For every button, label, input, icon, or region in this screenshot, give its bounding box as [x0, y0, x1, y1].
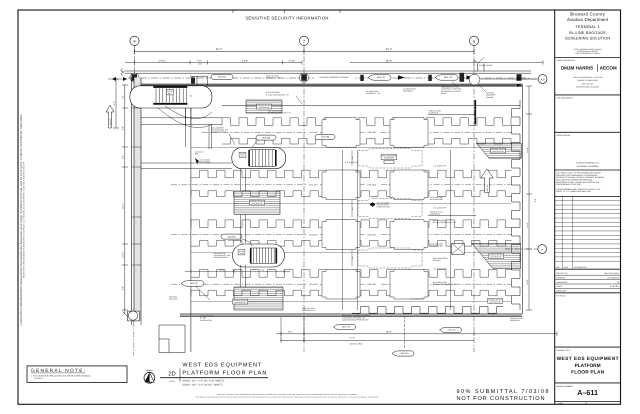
H2	[234, 191, 280, 215]
45/A-317 pennant	[181, 281, 204, 286]
EDS band 1 bottom	[222, 138, 512, 144]
svg-text:EDS UNIT: EDS UNIT	[368, 233, 378, 236]
EDS conveyor band 4 top	[191, 270, 512, 278]
north arrow	[144, 372, 155, 383]
EDS machine outline B band 2	[390, 170, 428, 200]
EDS band 2 centerline	[171, 184, 512, 186]
EDS band 1 centerline	[202, 131, 512, 133]
platform bottom edge	[180, 313, 522, 315]
svg-text:CHECKED BY:: CHECKED BY:	[556, 281, 568, 284]
svg-text:2'-6": 2'-6"	[122, 95, 125, 99]
svg-text:AECOM: AECOM	[600, 66, 617, 71]
grid bubble A	[538, 245, 547, 254]
grid bubble 6	[469, 36, 478, 45]
svg-text:PRIME CONSULTANT:: PRIME CONSULTANT:	[557, 59, 576, 62]
EDS band 2 bottom	[191, 191, 512, 197]
svg-text:DRAWING TITLE:: DRAWING TITLE:	[556, 349, 571, 352]
revision table	[555, 195, 621, 197]
svg-text:AR-0015651 / ID-0003094: AR-0015651 / ID-0003094	[577, 165, 599, 168]
grid bubble 8	[130, 36, 139, 45]
svg-text:11'-10": 11'-10"	[158, 59, 165, 62]
svg-text:EXISTING CONCRETE COLUMN: EXISTING CONCRETE COLUMN	[320, 76, 349, 79]
wall break mark	[121, 69, 124, 76]
svg-text:A: A	[541, 248, 543, 251]
svg-text:13'-8": 13'-8"	[242, 59, 248, 62]
svg-text:PROFESSIONAL OF RECORD.: PROFESSIONAL OF RECORD.	[556, 183, 582, 186]
bottom dimension line 1	[276, 333, 557, 335]
svg-text:SUNRISE, FLORIDA 33323: SUNRISE, FLORIDA 33323	[577, 79, 598, 82]
stair 3 label	[238, 250, 245, 255]
column at grid 6	[460, 73, 465, 82]
svg-text:B06C0151.A3/A05: B06C0151.A3/A05	[605, 272, 620, 275]
svg-text:VOLUME 1: VOLUME 1	[34, 377, 43, 380]
svg-text:4'-4": 4'-4"	[288, 331, 293, 334]
svg-text:SCALE: 1/8" = 1'-0" (11"X17: SCALE: 1/8" = 1'-0" (11"X17" SHEET)	[182, 383, 222, 386]
svg-text:BY BHS CONTRACTOR, TYP.: BY BHS CONTRACTOR, TYP.	[433, 283, 457, 286]
H1	[246, 100, 282, 113]
svg-text:9'-8": 9'-8"	[122, 126, 125, 130]
svg-text:12'-4": 12'-4"	[219, 268, 224, 271]
pennant 15/A-722	[334, 324, 356, 329]
leader arcs below stair 1	[165, 106, 212, 119]
EDS conveyor band 2 top	[191, 170, 512, 178]
EDS platform outline left edge	[190, 108, 192, 352]
svg-text:2'-0" CLEAR TYP.: 2'-0" CLEAR TYP.	[410, 298, 424, 301]
EDS conveyor band 3 top	[191, 220, 512, 228]
svg-text:4'-10": 4'-10"	[289, 59, 295, 62]
svg-text:36'-0": 36'-0"	[386, 331, 392, 334]
catwalk label bottom right	[488, 298, 503, 303]
svg-text:PROJECT NO:: PROJECT NO:	[556, 272, 568, 275]
conveyor lines from wall to band1	[141, 118, 222, 125]
svg-text:DESCRIPTION: DESCRIPTION	[574, 266, 587, 269]
svg-text:PLATFORM FLOOR PLAN: PLATFORM FLOOR PLAN	[182, 370, 266, 376]
EDS unit label band 1	[365, 130, 380, 134]
outer left dimension	[115, 79, 117, 128]
svg-text:ARCHITECTURE 54643500 T1 BAGGA: ARCHITECTURE 54643500 T1 BAGGAGE A-611 P…	[23, 161, 26, 278]
svg-text:NORTH: NORTH	[146, 369, 153, 372]
existing wall (top)	[125, 70, 532, 72]
callout 45/A-722 pennant 1	[368, 75, 391, 80]
svg-text:14'-0": 14'-0"	[526, 222, 529, 227]
svg-text:ACCESS DOOR, OPPOSITE SIDE: ACCESS DOOR, OPPOSITE SIDE	[342, 319, 369, 322]
EDS machine outline A band 1	[322, 118, 360, 148]
removable guardrail leader	[452, 82, 455, 86]
svg-text:CMU WALL: CMU WALL	[169, 298, 178, 301]
svg-text:REGISTRATION:: REGISTRATION:	[557, 134, 571, 137]
svg-text:ISSUE DATE:: ISSUE DATE:	[556, 290, 567, 293]
EDS band 4 centerline	[171, 283, 512, 285]
EDS band 3 centerline	[171, 234, 512, 236]
svg-text:( LINE TO GRID ): ( LINE TO GRID )	[349, 343, 364, 346]
svg-text:Aviation Department: Aviation Department	[567, 17, 609, 22]
svg-text:GUARDRAIL: GUARDRAIL	[510, 319, 520, 322]
EDS machine outline A band 4	[322, 269, 360, 299]
svg-text:2'-0" CLEAR TYP.: 2'-0" CLEAR TYP.	[345, 161, 359, 164]
callout 16/A-601	[211, 75, 233, 80]
svg-text:GUARDRAIL,TYP.: GUARDRAIL,TYP.	[302, 309, 316, 312]
wall thickness dim	[108, 78, 127, 80]
bottom-left step outline	[159, 325, 185, 353]
EDS equipment platform label	[381, 154, 397, 159]
svg-text:COLUMN: COLUMN	[486, 96, 494, 99]
existing concrete column note	[314, 75, 354, 80]
svg-text:SCALE: 1/4" = 1'-0" (22" X: SCALE: 1/4" = 1'-0" (22" X 34" SHEET)	[182, 379, 224, 382]
svg-text:A–611: A–611	[577, 388, 598, 397]
svg-text:SCALE:: SCALE:	[556, 285, 563, 288]
svg-text:12/A-668: 12/A-668	[321, 136, 330, 139]
H5	[472, 243, 521, 268]
svg-text:No.1: No.1	[168, 92, 172, 95]
svg-text:A.8: A.8	[541, 78, 545, 81]
svg-text:DMJM HARRIS: DMJM HARRIS	[561, 66, 593, 71]
small dims between bands	[352, 150, 354, 266]
EDS unit label band 2	[365, 183, 380, 187]
svg-text:GUARDRAIL: GUARDRAIL	[430, 213, 440, 216]
svg-text:COLUMN: COLUMN	[433, 259, 441, 262]
svg-text:12400 W. SUNRISE BLVD., SUITE: 12400 W. SUNRISE BLVD., SUITE 200	[573, 76, 603, 79]
svg-text:MOUNTING DETAIL: MOUNTING DETAIL	[211, 131, 226, 134]
floor drain note	[370, 202, 376, 206]
stair 3	[233, 244, 285, 267]
pennant 8/A-722	[440, 327, 462, 332]
wall end leader to A.8	[480, 78, 538, 80]
svg-text:2'-0" CLEAR TYP.: 2'-0" CLEAR TYP.	[433, 268, 447, 271]
dashed platform outline 3	[358, 248, 422, 268]
svg-text:36'-0": 36'-0"	[386, 59, 392, 62]
stair 1	[130, 86, 212, 108]
cmu column note	[452, 243, 465, 254]
platform right edge	[512, 100, 520, 310]
EDS band 4 bottom	[191, 290, 512, 296]
svg-text:BY BHS CONTRACTOR, TYP.: BY BHS CONTRACTOR, TYP.	[266, 93, 290, 96]
svg-text:13/A-660: 13/A-660	[227, 235, 236, 238]
svg-text:No.2: No.2	[241, 155, 245, 158]
catwalk rails H2 to stair3	[241, 215, 246, 244]
thick mark at grid 6 top	[474, 100, 476, 124]
svg-text:1. FOR CATWALKS BY BHS CONTRAC: 1. FOR CATWALKS BY BHS CONTRACTOR, REFER…	[31, 374, 91, 377]
svg-text:FORT LAUDERDALE, FLORIDA: FORT LAUDERDALE, FLORIDA	[575, 52, 600, 55]
svg-text:7'-8": 7'-8"	[197, 59, 202, 62]
svg-text:DOOR: DOOR	[441, 92, 447, 95]
EDS machine outline B band 4	[390, 269, 428, 299]
stair 2	[232, 147, 286, 168]
left wall bottom column	[128, 311, 140, 321]
svg-text:WEST EDS EQUIPMENT: WEST EDS EQUIPMENT	[557, 356, 619, 362]
svg-text:FLOOR PLAN: FLOOR PLAN	[571, 369, 605, 375]
stair 2 label	[239, 152, 246, 157]
svg-text:FLOOR SYSTEM: FLOOR SYSTEM	[377, 206, 391, 209]
wall heavy line	[137, 83, 523, 85]
svg-text:EDS UNIT: EDS UNIT	[309, 283, 318, 286]
svg-text:ANTONIO HERRERA, R.A.: ANTONIO HERRERA, R.A.	[576, 161, 600, 164]
EDS machine outline B band 1	[390, 118, 428, 148]
top band upper edge	[222, 104, 520, 106]
svg-text:GUARDRAIL: GUARDRAIL	[403, 90, 413, 93]
svg-text:14'-8": 14'-8"	[526, 147, 529, 152]
svg-text:EDS UNIT: EDS UNIT	[368, 184, 378, 187]
svg-text:EXTINGUISHER: EXTINGUISHER	[430, 198, 443, 201]
svg-text:90% SUBMITTAL 7/03/08: 90% SUBMITTAL 7/03/08	[457, 388, 549, 395]
svg-text:31/A-668: 31/A-668	[109, 119, 112, 126]
svg-text:TERMINAL 1: TERMINAL 1	[575, 25, 600, 29]
svg-text:7: 7	[303, 39, 305, 43]
svg-text:ACCESS DOOR: ACCESS DOOR	[479, 64, 493, 67]
column at grid 8	[132, 74, 138, 81]
svg-text:5'-0": 5'-0"	[113, 101, 116, 105]
svg-text:GUARDRAIL, TYP: GUARDRAIL, TYP	[266, 77, 281, 80]
svg-text:36'-0": 36'-0"	[216, 48, 223, 51]
stair 1 label	[166, 90, 173, 95]
svg-text:PLATFORM: PLATFORM	[575, 363, 601, 369]
catwalk rails stair2 to H2	[241, 169, 246, 191]
svg-text:SENSITIVE SECURITY INFORMATI: SENSITIVE SECURITY INFORMATION	[245, 16, 328, 21]
svg-text:EXTINGUISHER: EXTINGUISHER	[430, 245, 443, 248]
svg-text:EDS UNIT: EDS UNIT	[368, 283, 378, 286]
catwalk rails stair3 to H3	[241, 265, 246, 287]
svg-text:KEY PLAN:: KEY PLAN:	[556, 295, 566, 298]
svg-text:IN–LINE BAGGAGE: IN–LINE BAGGAGE	[569, 31, 606, 35]
svg-text:45/A-317: 45/A-317	[190, 282, 199, 285]
callout 45/A-722 pennant 2	[435, 75, 458, 80]
EDS machine outline A band 2	[322, 170, 360, 200]
svg-text:AFJ/JE/FB/GG: AFJ/JE/FB/GG	[607, 276, 619, 279]
column right end	[517, 74, 522, 81]
catwalk connection verticals	[209, 125, 211, 149]
svg-text:SHEET, 11" X 17" SHEETS ARE HA: SHEET, 11" X 17" SHEETS ARE HALF SIZE.	[556, 190, 592, 193]
EDS machine outline A band 3	[322, 220, 360, 250]
grid bubble A.8	[538, 75, 547, 84]
column at grid 7	[301, 74, 307, 81]
callout 13/A-660	[221, 234, 242, 239]
pennant 31/A-668	[106, 105, 114, 128]
right dimension line	[528, 86, 530, 310]
grid bubble 7	[299, 36, 308, 45]
svg-text:EDS UNIT: EDS UNIT	[309, 131, 318, 134]
svg-text:12'-4": 12'-4"	[122, 252, 125, 257]
svg-text:DRAWING NUMBER:: DRAWING NUMBER:	[556, 385, 573, 388]
svg-text:GUARDRAIL, TYP.: GUARDRAIL, TYP.	[366, 92, 381, 95]
general note box	[27, 366, 127, 383]
dim below stair 3	[185, 270, 290, 272]
EDS conveyor band 1 top	[222, 118, 512, 126]
svg-text:56'-0": 56'-0"	[122, 203, 125, 208]
H3	[233, 287, 284, 310]
upper dimension string	[125, 62, 543, 64]
column grid lines	[135, 46, 475, 353]
svg-text:NOT FOR CONSTRUCTION: NOT FOR CONSTRUCTION	[457, 396, 545, 402]
svg-text:2'-0" CLEAR TYP.: 2'-0" CLEAR TYP.	[433, 165, 447, 168]
svg-text:PLATFORM: PLATFORM	[384, 157, 394, 160]
left wall	[134, 78, 141, 321]
svg-text:2D: 2D	[168, 370, 175, 377]
svg-text:EDS UNIT: EDS UNIT	[309, 233, 318, 236]
title block frame	[554, 10, 556, 404]
svg-text:ARCHITECTURE AA C001325: ARCHITECTURE AA C001325	[576, 86, 599, 89]
svg-text:DRAWN BY:: DRAWN BY:	[556, 276, 566, 279]
svg-text:16/A-601: 16/A-601	[218, 76, 227, 79]
svg-text:3'-4": 3'-4"	[534, 198, 537, 202]
svg-text:WEST EDS EQUIPMENT: WEST EDS EQUIPMENT	[182, 362, 262, 368]
svg-text:6: 6	[473, 39, 475, 43]
callout 13/A-668	[256, 135, 276, 140]
svg-text:7'-10": 7'-10"	[259, 268, 264, 271]
svg-text:SCREENING SOLUTION: SCREENING SOLUTION	[565, 37, 610, 41]
svg-text:17'-4": 17'-4"	[349, 336, 355, 339]
svg-text:(954) 745-7461: (954) 745-7461	[582, 82, 594, 85]
svg-text:2'-6": 2'-6"	[122, 155, 125, 159]
up arrow pennant 42/A-722	[481, 169, 494, 193]
svg-text:EDS UNIT: EDS UNIT	[309, 184, 318, 187]
H4	[476, 143, 521, 158]
svg-text:8/A-722: 8/A-722	[448, 329, 456, 332]
svg-text:SUB-CONSULTANT:: SUB-CONSULTANT:	[557, 97, 574, 100]
wall posts	[360, 75, 364, 81]
svg-text:Broward County: Broward County	[570, 12, 606, 17]
dashed platform outline 1	[358, 149, 422, 169]
svg-text:L:\ARCHITECTURE\54643500\T1 BA: L:\ARCHITECTURE\54643500\T1 BAGGAGE\AA T…	[20, 114, 23, 326]
svg-text:36'-0": 36'-0"	[386, 48, 393, 51]
svg-text:2'-0" CLEAR TYP.: 2'-0" CLEAR TYP.	[433, 207, 447, 210]
stair 1 top landing to wall	[190, 76, 208, 85]
svg-text:13/A-668: 13/A-668	[262, 136, 271, 139]
left dimension line	[124, 85, 126, 314]
bottom dimension line 2	[281, 340, 474, 342]
conveyor verticals	[343, 150, 358, 310]
pennant 20/A-317	[392, 351, 414, 356]
svg-text:42/A-722: 42/A-722	[486, 185, 489, 192]
EDS machine outline B band 3	[390, 220, 428, 250]
grid 6 wall circle	[469, 74, 480, 85]
svg-text:45/A-722: 45/A-722	[444, 76, 453, 79]
svg-text:A-611: A-611	[169, 380, 175, 383]
svg-text:AS NOTED: AS NOTED	[610, 285, 620, 288]
svg-text:20/A-317: 20/A-317	[400, 352, 409, 355]
dashed platform outline 2	[358, 199, 422, 219]
svg-text:BY BHS CONTRACTOR, TYP.: BY BHS CONTRACTOR, TYP.	[433, 221, 457, 224]
EDS band 3 bottom	[191, 241, 512, 247]
svg-text:BY BHS CONTRACTOR, TYP.: BY BHS CONTRACTOR, TYP.	[268, 112, 292, 115]
svg-text:CONTRACTOR: CONTRACTOR	[200, 319, 213, 322]
grid dimension line	[135, 51, 475, 53]
EDS unit label band 3	[365, 232, 380, 236]
svg-text:45/A-722: 45/A-722	[377, 76, 386, 79]
svg-text:No.3: No.3	[240, 252, 244, 255]
svg-text:8: 8	[134, 39, 136, 43]
EDS unit label band 4	[365, 282, 380, 286]
svg-text:15/A-722: 15/A-722	[342, 326, 351, 329]
svg-text:12'-8": 12'-8"	[526, 279, 529, 284]
svg-text:9'-8": 9'-8"	[122, 286, 125, 290]
svg-text:EDS UNIT: EDS UNIT	[368, 131, 378, 134]
dim reference verticals	[281, 317, 304, 342]
callout 12/A-668	[315, 135, 335, 140]
